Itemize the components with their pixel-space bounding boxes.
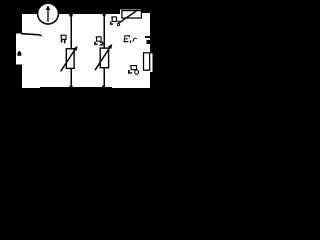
white halo bump around meter (37, 4, 59, 23)
label E,r for battery (124, 35, 137, 43)
bottom wire (22, 88, 42, 89)
battery plate short thick (147, 40, 151, 44)
white figure main area (22, 14, 150, 89)
node junction J1 top (69, 14, 73, 17)
resistor R2 arrow diagonal (95, 47, 110, 70)
resistor R1 arrowhead (73, 46, 77, 51)
label R2 (94, 37, 104, 46)
battery plate long thin (145, 36, 150, 38)
wire branch2 upper (103, 14, 105, 48)
resistor R1 box (66, 49, 74, 69)
meter needle arrowhead (46, 5, 50, 10)
resistor R3 arrow diagonal (117, 10, 138, 25)
wire right side (150, 13, 151, 89)
resistor R3 box (top right, on top wire) (122, 11, 141, 18)
wire branch1 lower (70, 68, 72, 87)
white left bulge around switch area (16, 34, 22, 65)
background (0, 0, 158, 96)
meter needle shaft (47, 9, 48, 22)
resistor R2 arrowhead (108, 44, 112, 49)
node junction J2 top (102, 14, 106, 16)
switch lever line (left side) (21, 33, 41, 37)
node junction branch1 bottom (69, 86, 74, 89)
wire branch2 lower (103, 68, 105, 88)
wire left side (21, 13, 22, 89)
white bump above R3 box (120, 10, 141, 15)
resistor R2 box (100, 48, 108, 68)
resistor R1 arrow diagonal (61, 49, 76, 72)
ammeter circle (38, 3, 59, 24)
label R1 (60, 35, 66, 43)
node junction branch2 bottom (101, 86, 106, 89)
resistor R0 box (right side, on right wire) (144, 53, 150, 70)
wire top (merges with background edge in scan) (21, 13, 150, 14)
wire branch1 upper (70, 14, 72, 49)
white halo right of R0 box (150, 54, 152, 73)
current arrow mark on left wire (17, 51, 21, 56)
label R3 (110, 17, 120, 26)
white stub right of R3 box (141, 13, 150, 15)
label R0 (128, 65, 138, 74)
